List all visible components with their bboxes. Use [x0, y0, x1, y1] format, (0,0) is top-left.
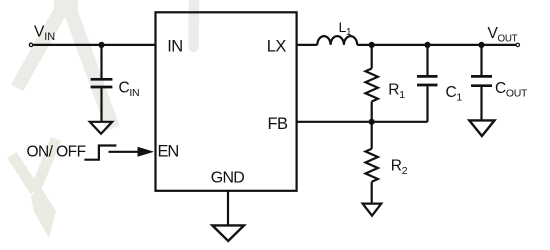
resistor R1 lead bottom — [371, 102, 373, 122]
svg-text:ON/ OFF: ON/ OFF — [27, 143, 86, 160]
ground under COUT — [469, 120, 494, 136]
watermark bottom-left check right arm — [35, 139, 56, 191]
EN arrowhead — [138, 147, 155, 157]
capacitor CIN lead bottom — [100, 88, 102, 122]
wire GND pin — [227, 191, 229, 226]
node COUT junction dot — [478, 42, 484, 48]
resistor R1 lead top — [371, 45, 373, 69]
ground under GND pin — [212, 225, 244, 241]
capacitor COUT lead bottom — [480, 87, 482, 120]
terminal VOUT circle — [516, 43, 519, 46]
watermark bar inside IC — [188, 3, 199, 47]
inductor L1 — [317, 36, 357, 45]
resistor R2 lead bottom — [371, 182, 373, 204]
watermark bottom-left check left arm — [12, 155, 35, 191]
capacitor CIN plates — [91, 79, 113, 87]
node C1 junction dot — [424, 42, 430, 48]
ground under R2 — [363, 204, 382, 216]
wire inductor to VOUT terminal — [357, 44, 516, 46]
watermark lambda right leg — [70, 10, 113, 128]
capacitor COUT lead top — [480, 45, 482, 75]
terminal VIN circle — [29, 43, 32, 46]
node FB junction dot — [369, 119, 375, 125]
wire LX pin to inductor — [297, 44, 318, 46]
capacitor COUT plates — [471, 76, 492, 85]
svg-text:EN: EN — [158, 143, 179, 161]
watermark lambda left leg — [17, 8, 62, 88]
capacitor C1 lead top — [426, 45, 428, 75]
svg-text:IN: IN — [167, 38, 182, 56]
watermark bottom-left tail — [31, 186, 56, 238]
ground under CIN — [90, 122, 112, 134]
resistor R2 zigzag — [366, 149, 378, 182]
node LX-R1 junction dot — [369, 42, 375, 48]
capacitor CIN lead top — [100, 45, 102, 78]
watermark lambda trunk — [54, 0, 78, 16]
IC U1 regulator box — [156, 12, 297, 191]
svg-text:LX: LX — [267, 38, 287, 56]
ON/OFF step symbol — [84, 146, 116, 160]
resistor R2 lead top — [371, 122, 373, 149]
capacitor C1 lead bottom — [426, 86, 428, 122]
resistor R1 zigzag — [366, 69, 378, 102]
node input junction dot — [98, 42, 104, 48]
svg-text:GND: GND — [211, 169, 245, 186]
wire FB pin to C1 bottom — [297, 121, 428, 123]
svg-text:FB: FB — [268, 115, 288, 133]
capacitor C1 plates — [417, 76, 438, 85]
wire EN arrow shaft — [109, 151, 140, 153]
wire VIN to IN pin — [33, 44, 155, 46]
